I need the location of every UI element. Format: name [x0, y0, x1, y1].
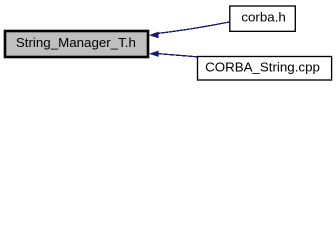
edge CORBA_String.cpp -> String_Manager_T.h (wire) — [149, 51, 198, 57]
edge corba.h -> String_Manager_T.h (wire) — [149, 22, 230, 38]
node CORBA_String.cpp — [198, 57, 332, 81]
node corba.h — [230, 6, 295, 31]
svg-text:corba.h: corba.h — [241, 9, 285, 24]
node String_Manager_T.h (current node, grey) — [5, 31, 148, 57]
svg-text:CORBA_String.cpp: CORBA_String.cpp — [205, 59, 320, 74]
svg-text:String_Manager_T.h: String_Manager_T.h — [16, 35, 136, 50]
